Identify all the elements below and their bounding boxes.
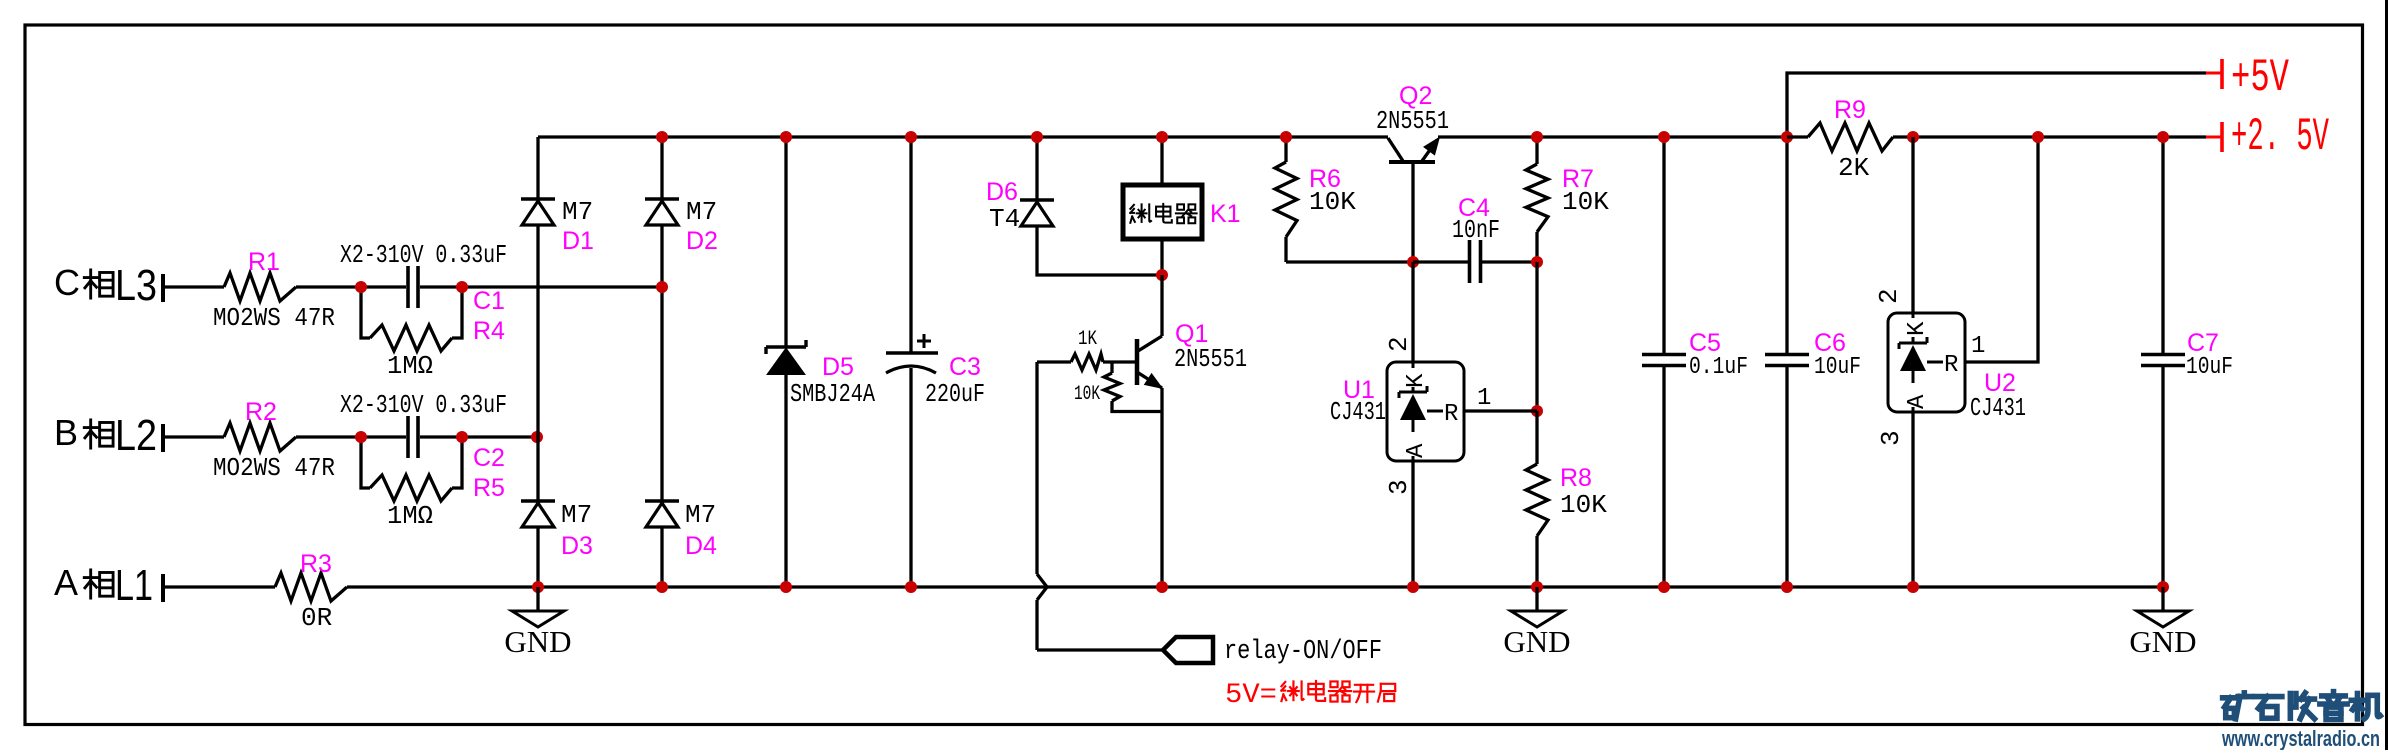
label R7 xyxy=(1562,165,1594,193)
label R5 value xyxy=(387,501,433,531)
label R5 xyxy=(473,474,505,502)
svg-text:10K: 10K xyxy=(1309,187,1356,217)
svg-text:D1: D1 xyxy=(562,227,594,255)
label U1 xyxy=(1343,376,1375,404)
label K1 text xyxy=(1130,204,1196,223)
label D2 part xyxy=(686,197,717,227)
node R9 right xyxy=(1907,131,1919,143)
svg-text:R2: R2 xyxy=(245,398,277,426)
capacitor C6 xyxy=(1765,137,1809,587)
label C2 xyxy=(473,444,505,472)
resistor R10 1K xyxy=(1037,354,1103,370)
label C5 xyxy=(1689,329,1721,357)
svg-text:B: B xyxy=(54,412,78,453)
svg-text:3: 3 xyxy=(1876,430,1906,446)
wire U2 pin2 xyxy=(1911,137,1914,313)
diode D1 xyxy=(521,199,555,225)
svg-text:C6: C6 xyxy=(1814,329,1846,357)
svg-text:10K: 10K xyxy=(1074,383,1100,406)
svg-text:MO2WS 47R: MO2WS 47R xyxy=(213,303,335,333)
node fb xyxy=(1531,405,1543,417)
wire gnd bus xyxy=(347,585,2163,588)
node C6 top xyxy=(1781,131,1793,143)
svg-text:GND: GND xyxy=(504,624,571,659)
label R4 xyxy=(473,317,505,345)
label Q1 xyxy=(1175,320,1208,348)
svg-text:3: 3 xyxy=(1384,479,1414,495)
label U1 pin3 xyxy=(1384,479,1414,495)
label R8 xyxy=(1560,464,1592,492)
resistor R3 xyxy=(275,573,347,601)
node D6 top xyxy=(1031,131,1043,143)
svg-text:X2-310V 0.33uF: X2-310V 0.33uF xyxy=(340,390,507,420)
svg-text:1: 1 xyxy=(1971,333,1985,360)
diode D4 xyxy=(645,501,679,527)
wire R1 to C1 xyxy=(296,285,406,288)
relay K1 box xyxy=(1123,185,1202,239)
node A-phase label xyxy=(54,561,153,610)
node C6 gnd xyxy=(1781,581,1793,593)
capacitor C5 xyxy=(1642,137,1686,587)
svg-text:D6: D6 xyxy=(986,178,1018,206)
wire Q1 collector xyxy=(1160,275,1163,336)
svg-text:10uF: 10uF xyxy=(1814,354,1861,381)
label C1 xyxy=(473,287,505,315)
node Q2 base xyxy=(1407,256,1419,268)
node C3 top xyxy=(905,131,917,143)
label C3 xyxy=(949,353,981,381)
svg-text:10K: 10K xyxy=(1562,187,1609,217)
label 5V relay note xyxy=(1225,680,1395,711)
wire Q1 emitter xyxy=(1160,388,1163,587)
svg-text:10nF: 10nF xyxy=(1452,215,1500,245)
label C4 value xyxy=(1452,215,1500,245)
resistor R8 xyxy=(1526,411,1548,587)
label U2 pin1 xyxy=(1971,333,1985,360)
wire C1 right xyxy=(420,285,662,288)
label C7 value xyxy=(2186,354,2233,381)
label U1 pin1 xyxy=(1477,385,1491,412)
resistor R7 xyxy=(1526,137,1548,262)
node R7 top xyxy=(1531,131,1543,143)
svg-text:10K: 10K xyxy=(1560,490,1607,520)
svg-text:D4: D4 xyxy=(685,532,717,560)
label C3 value xyxy=(925,379,985,409)
label D1 xyxy=(562,227,594,255)
label R9 value xyxy=(1838,153,1870,183)
node D1D3 gnd xyxy=(532,581,544,593)
label R6 value xyxy=(1309,187,1356,217)
terminal L2 xyxy=(161,424,165,452)
svg-text:0R: 0R xyxy=(301,603,332,633)
svg-text:2N5551: 2N5551 xyxy=(1174,344,1247,374)
svg-text:10uF: 10uF xyxy=(2186,354,2233,381)
resistor R5 xyxy=(361,437,462,501)
resistor R2 xyxy=(224,423,296,451)
wire C2 right xyxy=(420,435,537,438)
label C6 value xyxy=(1814,354,1861,381)
terminal L1 xyxy=(161,574,165,602)
label R2 value xyxy=(213,453,335,483)
label R2 xyxy=(245,398,277,426)
ic U1 internals xyxy=(1399,362,1458,461)
svg-text:R8: R8 xyxy=(1560,464,1592,492)
svg-text:C3: C3 xyxy=(949,353,981,381)
wire L2 lead xyxy=(163,435,224,438)
wire +5V emitter rail xyxy=(1438,135,1787,138)
capacitor C3 xyxy=(886,334,938,373)
svg-text:1: 1 xyxy=(1477,385,1491,412)
svg-text:GND: GND xyxy=(2129,624,2196,659)
wire L1 lead xyxy=(163,585,275,588)
node R6 top xyxy=(1280,131,1292,143)
svg-text:2: 2 xyxy=(1384,336,1414,352)
svg-text:CJ431: CJ431 xyxy=(1330,397,1386,427)
wire relay tap xyxy=(1037,362,1163,650)
label C1 value xyxy=(340,240,507,270)
wire R2 to C2 xyxy=(296,435,406,438)
capacitor C2 xyxy=(408,416,418,458)
label D5 xyxy=(822,353,854,381)
label D6 part xyxy=(989,204,1020,234)
svg-text:R5: R5 xyxy=(473,474,505,502)
svg-text:5V=: 5V= xyxy=(1225,680,1277,711)
node C1 left xyxy=(355,281,367,293)
svg-text:A: A xyxy=(54,562,78,603)
wire D5 branch xyxy=(784,137,787,587)
resistor R6 xyxy=(1275,137,1413,262)
ic U1 box xyxy=(1387,362,1464,461)
label R1 xyxy=(248,248,280,276)
label K1 xyxy=(1210,200,1241,228)
label Q2 xyxy=(1399,82,1432,110)
label D5 part xyxy=(790,379,875,409)
label R7 value xyxy=(1562,187,1609,217)
label D4 part xyxy=(685,500,716,530)
ground GND left xyxy=(504,587,571,659)
diode D6 xyxy=(1020,200,1054,226)
svg-text:0.1uF: 0.1uF xyxy=(1689,354,1748,381)
svg-text:1K: 1K xyxy=(1078,328,1097,351)
label R9 xyxy=(1834,96,1866,124)
node D2 anode xyxy=(656,281,668,293)
svg-text:D2: D2 xyxy=(686,227,718,255)
svg-text:+2. 5V: +2. 5V xyxy=(2231,111,2329,163)
label C2 value xyxy=(340,390,507,420)
label R4 value xyxy=(387,351,433,381)
node C2 right xyxy=(456,431,468,443)
resistor R1 xyxy=(224,273,296,301)
label Q2 part xyxy=(1376,106,1449,136)
label R6 xyxy=(1309,165,1341,193)
transistor Q2 xyxy=(1388,138,1439,162)
diode D3 xyxy=(521,501,555,527)
svg-text:C: C xyxy=(54,262,80,303)
svg-text:C2: C2 xyxy=(473,444,505,472)
label C6 xyxy=(1814,329,1846,357)
capacitor C4 xyxy=(1413,240,1537,283)
node C3 gnd xyxy=(905,581,917,593)
svg-text:SMBJ24A: SMBJ24A xyxy=(790,379,875,409)
wire U1 pin2 xyxy=(1411,262,1414,362)
wire D1 branch xyxy=(536,137,539,587)
svg-text:2N5551: 2N5551 xyxy=(1376,106,1449,136)
svg-text:D5: D5 xyxy=(822,353,854,381)
wire K1 bottom xyxy=(1160,239,1163,275)
node C1 right xyxy=(456,281,468,293)
svg-text:GND: GND xyxy=(1503,624,1570,659)
node C5 top xyxy=(1658,131,1670,143)
watermark logo xyxy=(2223,692,2381,720)
label 1K xyxy=(1078,328,1097,351)
label R3 xyxy=(300,550,332,578)
svg-text:2: 2 xyxy=(1874,288,1904,304)
wire C3 branch xyxy=(909,137,912,587)
svg-text:R: R xyxy=(1944,352,1958,379)
wire U2 pin3 xyxy=(1911,412,1914,587)
terminal L3 xyxy=(161,274,165,302)
svg-text:A: A xyxy=(1904,394,1931,409)
node C2 left xyxy=(355,431,367,443)
terminal +5V xyxy=(2206,52,2289,104)
wire Q1 base xyxy=(1103,360,1137,363)
wire +2.5V rail xyxy=(1913,135,2206,138)
label U2 part xyxy=(1970,393,2026,423)
svg-text:1MΩ: 1MΩ xyxy=(387,351,433,381)
resistor R11 10K xyxy=(1104,362,1120,401)
wire +5V top line xyxy=(1787,73,2206,137)
resistor R4 xyxy=(361,287,462,351)
label C4 xyxy=(1458,194,1490,222)
label D2 xyxy=(686,227,718,255)
label U2 xyxy=(1984,369,2016,397)
ic U2 box xyxy=(1888,313,1965,412)
diode D5 xyxy=(766,340,806,374)
label U2 pin3 xyxy=(1876,430,1906,446)
resistor R9 xyxy=(1787,123,1913,151)
label R8 value xyxy=(1560,490,1607,520)
label relay-ON/OFF xyxy=(1224,637,1382,667)
wire R7-R8 xyxy=(1535,262,1538,411)
label D6 xyxy=(986,178,1018,206)
node U2 pin1 top xyxy=(2032,131,2044,143)
node R8 gnd xyxy=(1531,581,1543,593)
svg-text:C5: C5 xyxy=(1689,329,1721,357)
wire Q2 base xyxy=(1411,162,1414,262)
svg-text:M7: M7 xyxy=(686,197,717,227)
svg-text:K: K xyxy=(1403,373,1430,388)
svg-text:M7: M7 xyxy=(561,500,592,530)
svg-text:+5V: +5V xyxy=(2231,52,2289,104)
svg-text:MO2WS 47R: MO2WS 47R xyxy=(213,453,335,483)
diode D2 xyxy=(645,199,679,225)
svg-text:relay-ON/OFF: relay-ON/OFF xyxy=(1224,637,1382,667)
node B-phase label xyxy=(54,411,157,460)
label D4 xyxy=(685,532,717,560)
svg-text:M7: M7 xyxy=(685,500,716,530)
svg-text:www.crystalradio.cn: www.crystalradio.cn xyxy=(2221,726,2380,750)
svg-text:X2-310V 0.33uF: X2-310V 0.33uF xyxy=(340,240,507,270)
svg-text:CJ431: CJ431 xyxy=(1970,393,2026,423)
node R7 bottom xyxy=(1531,256,1543,268)
svg-text:K: K xyxy=(1904,321,1931,336)
ground GND right xyxy=(2129,587,2196,659)
svg-text:C1: C1 xyxy=(473,287,505,315)
label D3 part xyxy=(561,500,592,530)
node C7 top xyxy=(2157,131,2169,143)
wire U1 pin1 xyxy=(1464,409,1537,412)
node D2 top xyxy=(656,131,668,143)
svg-text:L3: L3 xyxy=(115,261,157,310)
svg-text:R3: R3 xyxy=(300,550,332,578)
label D3 xyxy=(561,532,593,560)
svg-text:L2: L2 xyxy=(115,411,157,460)
label D1 part xyxy=(562,197,593,227)
connector relay-ON/OFF flag xyxy=(1163,637,1213,663)
label 10K q1 xyxy=(1074,383,1100,406)
node C-phase label xyxy=(54,261,157,310)
wire D6 branch xyxy=(1037,137,1162,275)
label U2 pin2 xyxy=(1874,288,1904,304)
label C7 xyxy=(2187,329,2219,357)
node L2-D1D3 xyxy=(531,431,543,443)
svg-text:T4: T4 xyxy=(989,204,1020,234)
svg-text:R: R xyxy=(1444,401,1458,428)
wire D2 branch xyxy=(660,137,663,587)
node K1-Q1 xyxy=(1156,269,1168,281)
node D5 gnd xyxy=(780,581,792,593)
label U1 part xyxy=(1330,397,1386,427)
watermark url xyxy=(2221,726,2380,751)
svg-text:M7: M7 xyxy=(562,197,593,227)
capacitor C7 xyxy=(2141,137,2185,587)
label U1 pin2 xyxy=(1384,336,1414,352)
node C7 gnd xyxy=(2157,581,2169,593)
svg-text:1MΩ: 1MΩ xyxy=(387,501,433,531)
node U2 pin3 gnd xyxy=(1907,581,1919,593)
svg-text:K1: K1 xyxy=(1210,200,1241,228)
svg-text:L1: L1 xyxy=(115,561,153,610)
wire +V rail top bus xyxy=(538,135,1388,138)
transistor Q1 xyxy=(1137,336,1162,388)
node D4 gnd xyxy=(656,581,668,593)
node D5 top xyxy=(780,131,792,143)
svg-text:R1: R1 xyxy=(248,248,280,276)
wire 10K to emitter xyxy=(1112,401,1162,412)
node C5 gnd xyxy=(1658,581,1670,593)
label Q1 part xyxy=(1174,344,1247,374)
wire K1 top xyxy=(1160,137,1163,185)
svg-text:R9: R9 xyxy=(1834,96,1866,124)
svg-text:2K: 2K xyxy=(1838,153,1870,183)
wire U1 pin3 xyxy=(1411,461,1414,587)
ground GND mid xyxy=(1503,587,1570,659)
capacitor C1 xyxy=(408,266,418,308)
node K1 top xyxy=(1156,131,1168,143)
svg-text:A: A xyxy=(1403,443,1430,458)
svg-text:R4: R4 xyxy=(473,317,505,345)
svg-text:220uF: 220uF xyxy=(925,379,985,409)
label R3 value xyxy=(301,603,332,633)
node U1 pin3 gnd xyxy=(1407,581,1419,593)
svg-text:D3: D3 xyxy=(561,532,593,560)
node Q1 emitter gnd xyxy=(1156,581,1168,593)
wire U2 pin1 xyxy=(1964,137,2038,362)
right edge line xyxy=(2385,0,2388,750)
wire L3 lead xyxy=(163,285,224,288)
label C5 value xyxy=(1689,354,1748,381)
svg-text:C7: C7 xyxy=(2187,329,2219,357)
label R1 value xyxy=(213,303,335,333)
ic U2 internals xyxy=(1899,313,1958,412)
terminal +2.5V xyxy=(2206,111,2329,163)
